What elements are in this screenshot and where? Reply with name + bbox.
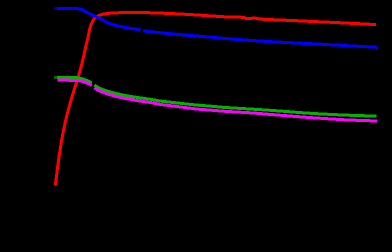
green curve (mid-left flat, declining) segment 1	[57, 77, 92, 83]
green curve segment 2 (after gap)	[94, 85, 376, 116]
magenta curve segment 2 (after gap)	[94, 88, 377, 121]
green curve dim lead-in cap	[54, 76, 57, 79]
magenta curve (just below green) segment 1	[58, 80, 92, 85]
blue curve segment 2 (after gap)	[143, 31, 377, 47]
red curve (steep rise from bottom-left, flat top, slow decline)	[55, 13, 376, 186]
blue curve dim lead-in cap	[54, 7, 57, 10]
blue curve (top-left flat, declining) segment 1	[57, 8, 140, 29]
